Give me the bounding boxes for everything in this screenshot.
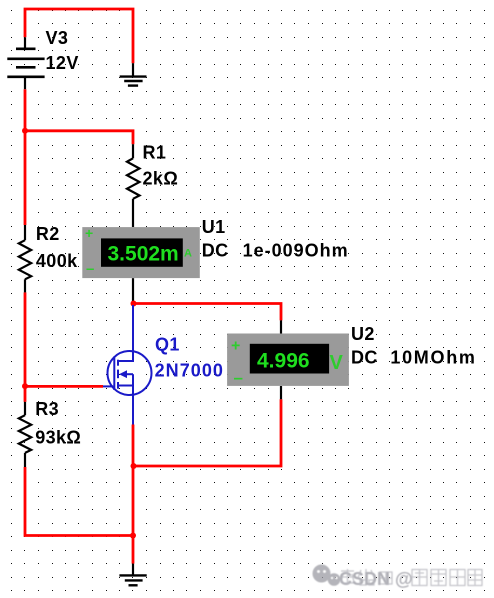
svg-text:A: A — [184, 248, 192, 260]
svg-text:R2: R2 — [36, 224, 60, 244]
svg-text:+: + — [85, 225, 93, 241]
svg-text:10MOhm: 10MOhm — [390, 348, 476, 368]
svg-text:DC: DC — [202, 240, 229, 260]
svg-text:V3: V3 — [46, 28, 69, 48]
svg-text:12V: 12V — [46, 53, 79, 73]
svg-text:V: V — [330, 352, 344, 374]
svg-text:–: – — [234, 368, 243, 387]
svg-text:+: + — [231, 338, 240, 355]
svg-text:1e-009Ohm: 1e-009Ohm — [243, 240, 349, 260]
svg-text:2N7000: 2N7000 — [155, 361, 224, 381]
svg-text:2kΩ: 2kΩ — [143, 169, 179, 189]
svg-text:R3: R3 — [35, 399, 59, 419]
svg-text:U2: U2 — [351, 324, 375, 344]
svg-text:DC: DC — [351, 348, 378, 368]
svg-text:CSDN @: CSDN @ — [339, 569, 413, 589]
svg-text:4.996: 4.996 — [257, 350, 310, 373]
svg-text:–: – — [86, 261, 94, 278]
svg-text:R1: R1 — [143, 142, 167, 162]
svg-text:3.502m: 3.502m — [108, 243, 179, 266]
svg-text:Q1: Q1 — [155, 334, 180, 354]
svg-text:U1: U1 — [202, 217, 226, 237]
svg-text:400k: 400k — [36, 251, 78, 271]
svg-text:93kΩ: 93kΩ — [35, 427, 81, 447]
